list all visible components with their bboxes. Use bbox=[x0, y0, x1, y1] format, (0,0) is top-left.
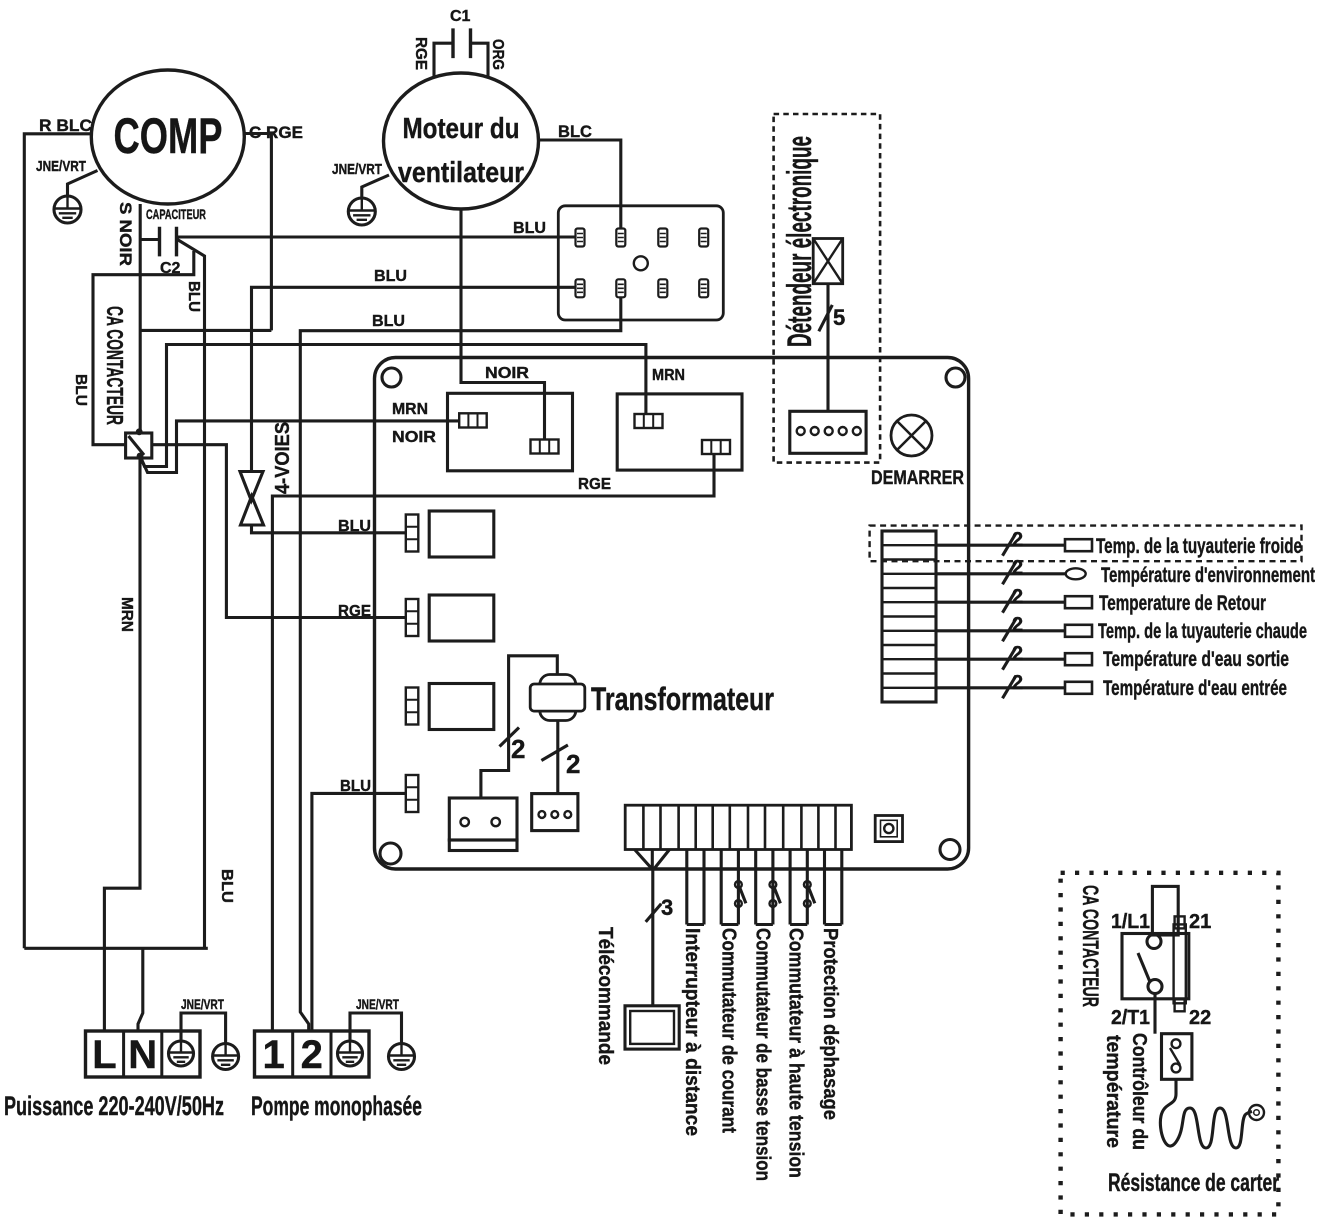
svg-text:BLU: BLU bbox=[218, 869, 235, 903]
wire motor earth lead bbox=[362, 175, 389, 198]
svg-text:2: 2 bbox=[301, 1033, 323, 1077]
svg-text:Télécommande: Télécommande bbox=[594, 927, 617, 1065]
svg-text:MRN: MRN bbox=[392, 401, 428, 418]
svg-text:1: 1 bbox=[262, 1033, 284, 1077]
svg-text:Puissance 220-240V/50Hz: Puissance 220-240V/50Hz bbox=[4, 1091, 224, 1121]
switch loop 3 (Commutateur de basse tension) bbox=[756, 850, 773, 925]
slash 2-wires (primary) bbox=[500, 728, 520, 747]
slash 5-wires bbox=[819, 305, 833, 331]
svg-text:DEMARRER: DEMARRER bbox=[871, 468, 964, 489]
sensor row 4: wire bbox=[936, 629, 1065, 632]
sensor row 1: wire bbox=[936, 544, 1065, 547]
wire R BLC from compressor to far-left vertical bbox=[24, 134, 91, 949]
wire contactor right to RGE pin (PCB left connector 2) bbox=[152, 445, 406, 618]
socket pins row2 bbox=[576, 279, 709, 297]
svg-text:2/T1: 2/T1 bbox=[1111, 1007, 1150, 1029]
svg-text:Moteur du: Moteur du bbox=[403, 113, 520, 145]
switch loop 2 (Commutateur de courant) bbox=[721, 850, 738, 925]
svg-text:COMP: COMP bbox=[114, 108, 223, 164]
svg-text:3: 3 bbox=[661, 895, 673, 920]
connector 2-hole (PCB bottom left) bbox=[449, 798, 517, 851]
svg-text:NOIR: NOIR bbox=[392, 429, 436, 446]
svg-text:NOIR: NOIR bbox=[485, 365, 529, 382]
svg-text:BLU: BLU bbox=[513, 220, 546, 237]
contactor contact box (detail) bbox=[1122, 934, 1189, 999]
svg-text:Commutateur de basse tension: Commutateur de basse tension bbox=[752, 928, 775, 1181]
svg-text:Protection déphasage: Protection déphasage bbox=[819, 928, 842, 1120]
pump terminal block 1 2 + earth bbox=[255, 1031, 370, 1077]
svg-text:Température d'eau entrée: Température d'eau entrée bbox=[1103, 677, 1287, 700]
svg-text:RGE: RGE bbox=[412, 37, 429, 70]
svg-text:Temp. de la tuyauterie chaude: Temp. de la tuyauterie chaude bbox=[1098, 620, 1307, 643]
socket pins row1 bbox=[576, 229, 709, 247]
wire pump earth bracket bbox=[350, 1013, 402, 1044]
wire remote control down bbox=[651, 870, 654, 1006]
svg-text:Transformateur: Transformateur bbox=[591, 681, 774, 717]
transformer T1 wire secondary bbox=[556, 721, 559, 794]
contact bar 21/22 (detail) bbox=[1174, 916, 1186, 1011]
wire C RGE from compressor down bbox=[244, 134, 271, 331]
svg-text:température: température bbox=[1102, 1035, 1124, 1148]
capacitor C1 bbox=[450, 8, 471, 58]
sensor row 6: slash 2 bbox=[1003, 676, 1017, 699]
sensor row 6: thermistor terminal bbox=[1065, 682, 1092, 694]
wire bottom joining rail y=948 bbox=[24, 947, 208, 950]
transformer T1 bbox=[530, 675, 585, 721]
switch symbol on loop 3 bbox=[770, 881, 781, 907]
svg-text:BLC: BLC bbox=[558, 122, 592, 141]
fan motor (Moteur du ventilateur) bbox=[384, 73, 539, 209]
svg-text:JNE/VRT: JNE/VRT bbox=[181, 996, 224, 1012]
svg-text:R BLC: R BLC bbox=[39, 116, 92, 135]
svg-text:2: 2 bbox=[511, 734, 525, 764]
PCB left pin block 4 (BLU) bbox=[406, 775, 419, 812]
switch loop 5 (Protection dephasage) bbox=[825, 850, 842, 925]
wire BLU1 C2 to relay socket pin 1 bbox=[177, 235, 576, 238]
bottom multi-pin connector (13 cells) bbox=[625, 805, 851, 849]
PCB empty box 1 bbox=[429, 511, 494, 557]
svg-text:JNE/VRT: JNE/VRT bbox=[356, 996, 399, 1012]
svg-text:RGE: RGE bbox=[338, 603, 371, 620]
svg-text:22: 22 bbox=[1189, 1007, 1211, 1029]
svg-text:L: L bbox=[92, 1033, 116, 1077]
svg-text:2: 2 bbox=[1012, 586, 1023, 608]
svg-text:2: 2 bbox=[1012, 643, 1023, 665]
wire expansion valve to 5-pin connector bbox=[826, 284, 829, 412]
PCB mounting hole top-right bbox=[946, 368, 965, 387]
sensor row 4: thermistor terminal bbox=[1065, 625, 1092, 637]
expansion valve coil symbol (crossed box) bbox=[813, 239, 843, 284]
ground motor PE bbox=[348, 198, 375, 226]
sensor row 5: thermistor terminal bbox=[1065, 653, 1092, 665]
capacitor C2 bbox=[160, 227, 181, 277]
wire branch from S wire to C RGE vertical (y=330.4) bbox=[140, 329, 271, 332]
PCB empty box 2 bbox=[429, 595, 494, 641]
wire BLU from C2 right plate down long vertical bbox=[177, 239, 205, 948]
wire PCB BLU pin4 to pump 2 terminal bbox=[312, 793, 406, 1031]
wire compressor earth lead bbox=[68, 171, 98, 197]
svg-text:Contrôleur du: Contrôleur du bbox=[1128, 1033, 1150, 1150]
svg-text:2: 2 bbox=[1012, 557, 1023, 579]
screw terminal small box (PCB bottom right) bbox=[875, 816, 902, 842]
thermostat box (Controleur du temperature) bbox=[1162, 1034, 1192, 1080]
sensor row 3: wire bbox=[936, 601, 1065, 604]
ground compressor PE bbox=[54, 196, 81, 224]
sensor row 1: slash 2 bbox=[1003, 533, 1017, 556]
sensor row 3: thermistor terminal bbox=[1065, 596, 1092, 608]
svg-text:Commutateur à haute tension: Commutateur à haute tension bbox=[785, 928, 808, 1178]
crankcase heater resistance coil bbox=[1160, 1079, 1264, 1148]
wire N terminal up to y=948 rail bbox=[138, 948, 143, 1031]
svg-text:RGE: RGE bbox=[578, 476, 611, 493]
svg-text:Résistance de carter: Résistance de carter bbox=[1108, 1169, 1279, 1197]
relay 1 box on PCB bbox=[448, 393, 573, 471]
wire C1 left lead bbox=[434, 43, 453, 78]
wire MRN contactor bottom to relay1 left pin bbox=[140, 421, 459, 473]
ground symbol in pump earth cell bbox=[338, 1041, 363, 1067]
sensor row 1: thermistor terminal bbox=[1065, 539, 1092, 551]
wire motor BLC to relay socket pin bbox=[539, 140, 621, 229]
sensor row 5: wire bbox=[936, 658, 1065, 661]
svg-text:JNE/VRT: JNE/VRT bbox=[332, 161, 382, 178]
connector 5-pin (PCB) bbox=[790, 411, 866, 453]
switch loop 4 (Commutateur a haute tension) bbox=[790, 850, 807, 925]
wire C1 right lead bbox=[471, 43, 489, 77]
relay socket X1 bbox=[558, 206, 723, 320]
remote control box (Telecommande) bbox=[625, 1006, 679, 1049]
slash 2-wires (secondary) bbox=[541, 745, 568, 761]
svg-text:Commutateur de courant: Commutateur de courant bbox=[718, 928, 741, 1133]
floating ground symbol (pump) bbox=[389, 1043, 415, 1070]
svg-text:2: 2 bbox=[1012, 529, 1023, 551]
relay2 bottom pin block bbox=[702, 440, 730, 454]
wire contactor bottom down to L terminal bbox=[104, 456, 140, 1031]
svg-text:CAPACITEUR: CAPACITEUR bbox=[146, 206, 206, 222]
transformer T1 wire primary bbox=[481, 656, 557, 798]
wire contactor bottom to relay2 via y=344.5 bbox=[140, 345, 646, 467]
switch symbol on loop 2 bbox=[735, 881, 746, 907]
svg-text:MRN: MRN bbox=[652, 367, 685, 384]
sensor row 2: bulb terminal bbox=[1066, 568, 1086, 579]
svg-text:CA CONTACTEUR: CA CONTACTEUR bbox=[102, 306, 128, 425]
relay2 top pin block bbox=[635, 414, 663, 428]
PCB main board outline bbox=[375, 358, 969, 870]
svg-text:Temp. de la tuyauterie froide: Temp. de la tuyauterie froide bbox=[1096, 535, 1302, 558]
indicator DEMARRER (circle with X) bbox=[891, 415, 932, 456]
relay 2 box on PCB bbox=[617, 394, 742, 470]
sensor row 2: wire bbox=[936, 572, 1066, 575]
sensor row 4: slash 2 bbox=[1003, 619, 1017, 642]
svg-text:BLU: BLU bbox=[372, 313, 405, 330]
wire RGE relay2 bottom pin to pump 1 terminal bbox=[272, 454, 714, 1031]
svg-text:2: 2 bbox=[1012, 672, 1023, 694]
wire compressor S to C2 left plate and down to contactor top bbox=[139, 204, 142, 431]
svg-text:1/L1: 1/L1 bbox=[1111, 911, 1150, 933]
compressor COMP bbox=[91, 70, 244, 204]
svg-text:Interrupteur à distance: Interrupteur à distance bbox=[681, 928, 704, 1136]
switch symbol on loop 4 bbox=[804, 881, 815, 907]
PCB left pin block 1 (BLU) bbox=[406, 515, 419, 552]
svg-text:ORG: ORG bbox=[489, 39, 506, 70]
sensor terminal strip (12 positions) bbox=[882, 531, 936, 702]
contactor K1 bbox=[126, 428, 152, 459]
svg-text:ventilateur: ventilateur bbox=[398, 157, 524, 189]
PCB left pin block 2 (RGE) bbox=[406, 599, 419, 636]
slash 3-wires bbox=[646, 904, 662, 922]
wire BLU2 socket row2 pin1 to 4-way valve top bbox=[252, 287, 576, 471]
wire valve bottom to PCB BLU pin 1 bbox=[252, 525, 406, 533]
svg-text:2: 2 bbox=[1012, 614, 1023, 636]
sensor row 5: slash 2 bbox=[1003, 647, 1017, 670]
svg-text:S NOIR: S NOIR bbox=[116, 202, 135, 266]
wires remote control 3 pins converge bbox=[635, 850, 670, 870]
svg-text:BLU: BLU bbox=[374, 268, 407, 285]
svg-text:Temperature de Retour: Temperature de Retour bbox=[1099, 592, 1266, 615]
svg-text:Température d'environnement: Température d'environnement bbox=[1101, 564, 1315, 587]
sensor row 3: slash 2 bbox=[1003, 590, 1017, 613]
svg-text:21: 21 bbox=[1189, 911, 1211, 933]
relay1 left pin block bbox=[459, 413, 487, 427]
electronic expansion valve dashed enclosure bbox=[774, 114, 881, 463]
ground symbol in L-block earth cell bbox=[169, 1041, 194, 1067]
svg-text:BLU: BLU bbox=[72, 374, 89, 406]
wire contact to thermostat bbox=[1153, 994, 1156, 1034]
svg-text:4-VOIES: 4-VOIES bbox=[272, 422, 294, 494]
wire BLU3 socket row2 pin2 down and left to pump 2 terminal bbox=[300, 297, 621, 1031]
crankcase heater dotted enclosure bbox=[1061, 873, 1279, 1215]
sensor row 2: slash 2 bbox=[1003, 562, 1017, 585]
sensor row 6: wire bbox=[936, 686, 1065, 689]
relay1 bottom pin block bbox=[531, 440, 559, 454]
svg-text:BLU: BLU bbox=[338, 518, 371, 535]
wire contactor left terminal up and over to C2 junction bbox=[93, 251, 194, 445]
connector 3-hole (PCB bottom) bbox=[532, 794, 578, 831]
power terminal block L N + earth bbox=[86, 1031, 201, 1077]
PCB left pin block 3 bbox=[406, 688, 419, 725]
svg-text:5: 5 bbox=[833, 305, 845, 330]
wire power earth bracket bbox=[181, 1013, 226, 1044]
svg-text:MRN: MRN bbox=[118, 597, 135, 632]
switch loop 1 (Interrupteur a distance) bbox=[687, 850, 704, 925]
4-way valve (4-VOIES) bbox=[240, 472, 264, 526]
PCB mounting hole top-left bbox=[382, 368, 401, 387]
svg-text:JNE/VRT: JNE/VRT bbox=[36, 158, 86, 175]
svg-text:C1: C1 bbox=[450, 8, 471, 25]
floating ground symbol (power) bbox=[213, 1043, 239, 1070]
svg-text:BLU: BLU bbox=[340, 778, 371, 795]
dashed box around sensor row 1 bbox=[870, 526, 1302, 562]
wire motor NOIR down to relay1 bottom pin bbox=[461, 209, 545, 440]
svg-text:BLU: BLU bbox=[185, 281, 202, 312]
svg-text:N: N bbox=[128, 1033, 157, 1077]
PCB mounting hole bottom-right bbox=[940, 840, 960, 860]
PCB empty box 3 bbox=[429, 684, 494, 730]
contactor coil rect (detail box) bbox=[1152, 886, 1178, 935]
svg-text:Température d'eau sortie: Température d'eau sortie bbox=[1103, 648, 1289, 671]
wire C2 left plate stub bbox=[140, 238, 159, 241]
svg-text:2: 2 bbox=[566, 749, 580, 779]
PCB mounting hole bottom-left bbox=[380, 843, 401, 864]
svg-text:Pompe monophasée: Pompe monophasée bbox=[251, 1091, 422, 1121]
svg-text:CA CONTACTEUR: CA CONTACTEUR bbox=[1078, 885, 1103, 1007]
